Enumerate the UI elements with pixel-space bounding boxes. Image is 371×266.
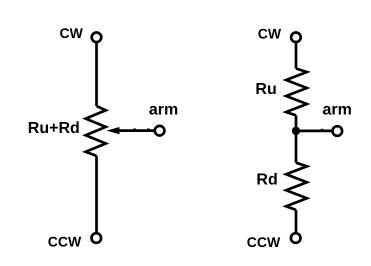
- left potentiometer: CCW terminal circle: [92, 233, 102, 243]
- wire: Ru bottom to junction: [295, 115, 298, 162]
- wire joint nub on left arm wire: [133, 129, 136, 131]
- wiper arrow head: [106, 127, 119, 134]
- resistor Rd zigzag: [286, 163, 307, 210]
- wire: wiper arm horizontal: [118, 129, 154, 132]
- svg-text:Rd: Rd: [256, 172, 277, 189]
- right circuit: CCW terminal circle: [291, 233, 301, 243]
- wire joint nub on left arm wire: [147, 129, 150, 131]
- svg-text:arm: arm: [323, 101, 352, 118]
- svg-text:Ru: Ru: [255, 81, 276, 98]
- svg-text:CCW: CCW: [247, 234, 281, 250]
- wire: CW terminal to top of Ru: [295, 43, 298, 68]
- right circuit: arm terminal circle: [333, 126, 343, 136]
- resistor R1 (potentiometer body) value Ru+Rd zigzag: [86, 106, 106, 156]
- svg-text:Ru+Rd: Ru+Rd: [28, 120, 80, 137]
- right circuit: CW terminal circle: [291, 33, 301, 43]
- resistor Ru zigzag: [286, 69, 307, 116]
- wire joint nub on right arm wire: [321, 129, 324, 131]
- svg-text:CCW: CCW: [48, 234, 82, 250]
- svg-text:CW: CW: [60, 25, 84, 41]
- svg-text:arm: arm: [149, 101, 178, 118]
- wire: Rd bottom to CCW terminal: [295, 210, 298, 232]
- wire: bottom of resistor to CCW terminal: [95, 156, 98, 232]
- svg-text:CW: CW: [258, 26, 282, 42]
- junction node (arm tap) dot: [292, 127, 300, 135]
- wire: CW terminal to top of resistor: [95, 43, 98, 106]
- wire: junction to arm terminal: [296, 130, 332, 133]
- left potentiometer: CW terminal circle: [92, 33, 102, 43]
- left potentiometer: arm terminal circle: [155, 126, 165, 136]
